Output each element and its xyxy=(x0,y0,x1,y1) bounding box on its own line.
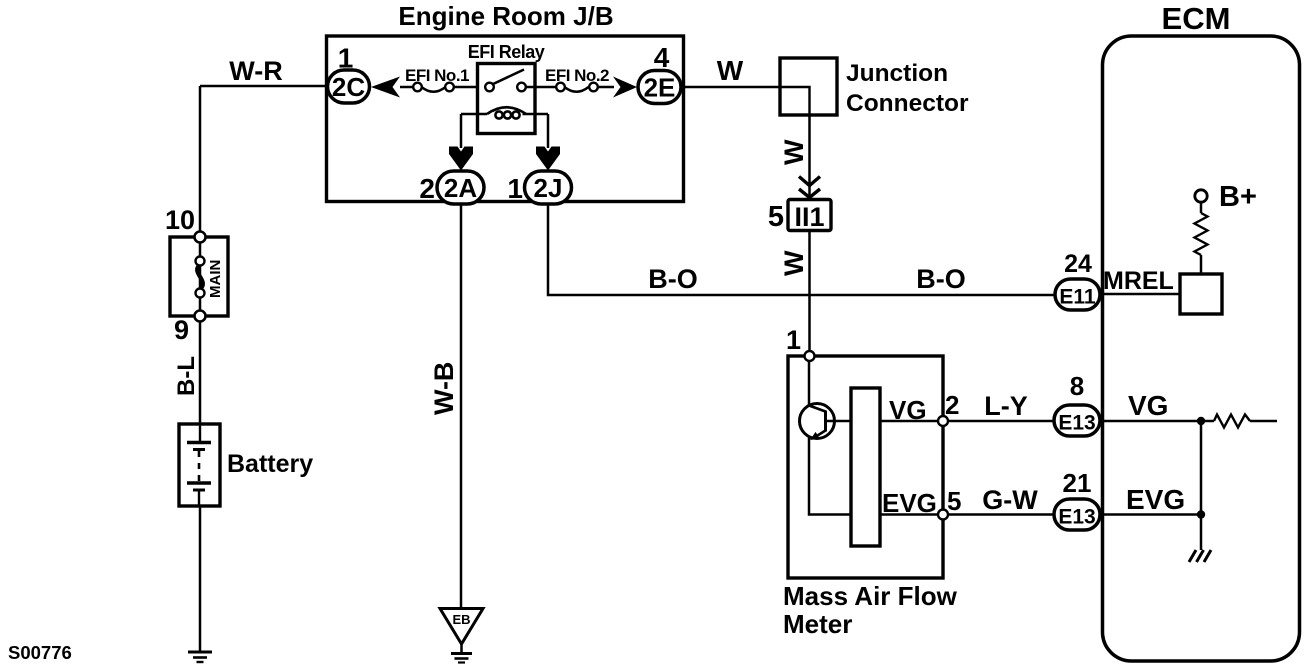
junction dot VG xyxy=(1197,417,1205,425)
svg-text:9: 9 xyxy=(174,315,189,345)
svg-text:EB: EB xyxy=(452,612,470,627)
connector E11 xyxy=(1055,279,1100,310)
ECM box xyxy=(1103,36,1300,661)
Engine Room J/B box xyxy=(327,36,684,202)
svg-text:8: 8 xyxy=(1070,371,1084,401)
svg-text:10: 10 xyxy=(165,205,195,235)
terminal 2 circle xyxy=(938,416,948,426)
svg-text:1: 1 xyxy=(786,325,801,355)
relay switch xyxy=(492,70,524,85)
svg-text:B-O: B-O xyxy=(916,264,966,294)
wire to transistor xyxy=(808,361,811,406)
fusible link MAIN box xyxy=(170,237,228,316)
svg-text:2J: 2J xyxy=(534,173,563,203)
arrow into 2J xyxy=(536,147,560,171)
svg-text:MREL: MREL xyxy=(1103,267,1174,295)
ground EB triangle xyxy=(440,609,483,645)
svg-text:2: 2 xyxy=(945,390,959,420)
base wire xyxy=(826,420,852,423)
EFI relay box xyxy=(478,64,536,134)
svg-text:Meter: Meter xyxy=(783,609,852,639)
svg-text:E13: E13 xyxy=(1058,412,1095,435)
arrow chevrons into II1 xyxy=(799,177,820,186)
connector 2E xyxy=(638,71,681,104)
svg-text:W: W xyxy=(779,250,809,276)
svg-text:Engine Room J/B: Engine Room J/B xyxy=(398,1,613,31)
svg-text:B-O: B-O xyxy=(648,264,698,294)
wire W down to II1 xyxy=(808,115,811,199)
svg-text:2E: 2E xyxy=(644,73,676,103)
svg-text:Junction: Junction xyxy=(846,60,948,87)
ground (battery) xyxy=(188,651,212,654)
svg-text:EFI Relay: EFI Relay xyxy=(468,42,545,62)
svg-text:EFI No.2: EFI No.2 xyxy=(545,66,609,85)
svg-text:W-R: W-R xyxy=(229,56,282,86)
svg-text:1: 1 xyxy=(507,173,523,204)
wire EVG xyxy=(880,513,938,516)
connector II1 xyxy=(788,200,831,231)
svg-text:B-L: B-L xyxy=(173,356,200,396)
wire fuse2 to arrow xyxy=(598,86,614,89)
svg-text:S00776: S00776 xyxy=(8,642,72,663)
svg-text:2C: 2C xyxy=(332,72,365,102)
wire MREL xyxy=(1100,293,1180,296)
wire W to MAF xyxy=(808,230,811,352)
MREL driver box xyxy=(1180,274,1222,314)
wire battery to ground xyxy=(199,506,202,652)
svg-text:W: W xyxy=(779,139,809,165)
wire coil left drop xyxy=(460,114,463,148)
node 9 terminal xyxy=(195,311,206,322)
wire B-L xyxy=(199,321,202,424)
transistor Q xyxy=(800,404,835,439)
wire battery feed vertical xyxy=(199,86,202,237)
svg-text:5: 5 xyxy=(768,201,784,233)
svg-text:4: 4 xyxy=(654,42,670,73)
wire W-R horizontal xyxy=(200,85,327,88)
svg-text:Connector: Connector xyxy=(846,90,969,117)
wire coil right drop xyxy=(547,114,550,148)
svg-text:ECM: ECM xyxy=(1162,1,1231,36)
connector 2C xyxy=(328,70,370,103)
arrow into 2A xyxy=(449,147,473,171)
svg-text:EFI No.1: EFI No.1 xyxy=(405,66,469,85)
connector 2J xyxy=(525,171,572,204)
battery xyxy=(179,424,220,506)
junction connector box xyxy=(780,58,837,115)
svg-text:MAIN: MAIN xyxy=(207,260,224,298)
signal ground hatch xyxy=(1189,550,1196,562)
wire to signal ground xyxy=(1200,515,1203,551)
wire VG dot to EVG dot xyxy=(1200,421,1203,515)
svg-text:24: 24 xyxy=(1064,250,1092,278)
resistor (pull-up) xyxy=(1200,202,1203,213)
connector 2A xyxy=(437,171,484,204)
svg-text:E11: E11 xyxy=(1059,286,1096,309)
svg-text:21: 21 xyxy=(1063,468,1092,498)
svg-text:Mass Air Flow: Mass Air Flow xyxy=(783,581,958,611)
wire 2J to MREL (B-O) xyxy=(548,204,1055,295)
fusible link element xyxy=(199,237,202,316)
svg-text:E13: E13 xyxy=(1058,506,1095,529)
wire VG inside ECM xyxy=(1100,420,1201,423)
B+ terminal xyxy=(1195,190,1207,202)
junction dot EVG xyxy=(1197,510,1205,518)
relay coil xyxy=(461,113,487,116)
wire 2E to junction connector xyxy=(681,86,780,89)
wire VG xyxy=(880,420,938,423)
svg-text:EVG: EVG xyxy=(1126,484,1185,515)
arrow into 2C xyxy=(371,77,400,98)
svg-text:5: 5 xyxy=(947,486,961,516)
svg-text:B+: B+ xyxy=(1219,181,1257,213)
wire 2C arrow to fuse1 xyxy=(400,86,413,89)
MAF box xyxy=(788,356,943,578)
terminal 1 circle xyxy=(805,351,815,361)
wire fuse1 to relay xyxy=(454,86,478,89)
svg-text:L-Y: L-Y xyxy=(984,391,1028,421)
connector E13 (VG) xyxy=(1054,405,1100,436)
svg-text:G-W: G-W xyxy=(982,485,1038,515)
svg-text:W: W xyxy=(717,55,744,86)
emitter wire xyxy=(809,437,851,515)
resistor VG load xyxy=(1201,420,1214,423)
svg-text:2: 2 xyxy=(419,173,435,204)
connector E13 (EVG) xyxy=(1054,499,1100,530)
terminal 5 circle xyxy=(938,510,948,520)
svg-text:Battery: Battery xyxy=(227,450,313,478)
arrow into 2E xyxy=(613,77,637,98)
sensing element xyxy=(851,388,880,546)
wire 2A to EB ground xyxy=(460,204,463,608)
svg-text:II1: II1 xyxy=(794,202,824,232)
svg-text:VG: VG xyxy=(1128,390,1168,421)
wire L-Y xyxy=(948,420,1054,423)
svg-text:W-B: W-B xyxy=(429,362,459,415)
svg-text:2A: 2A xyxy=(444,173,477,203)
wire EVG inside ECM xyxy=(1100,513,1201,516)
wire G-W xyxy=(948,513,1054,516)
node 10 terminal xyxy=(195,232,206,243)
